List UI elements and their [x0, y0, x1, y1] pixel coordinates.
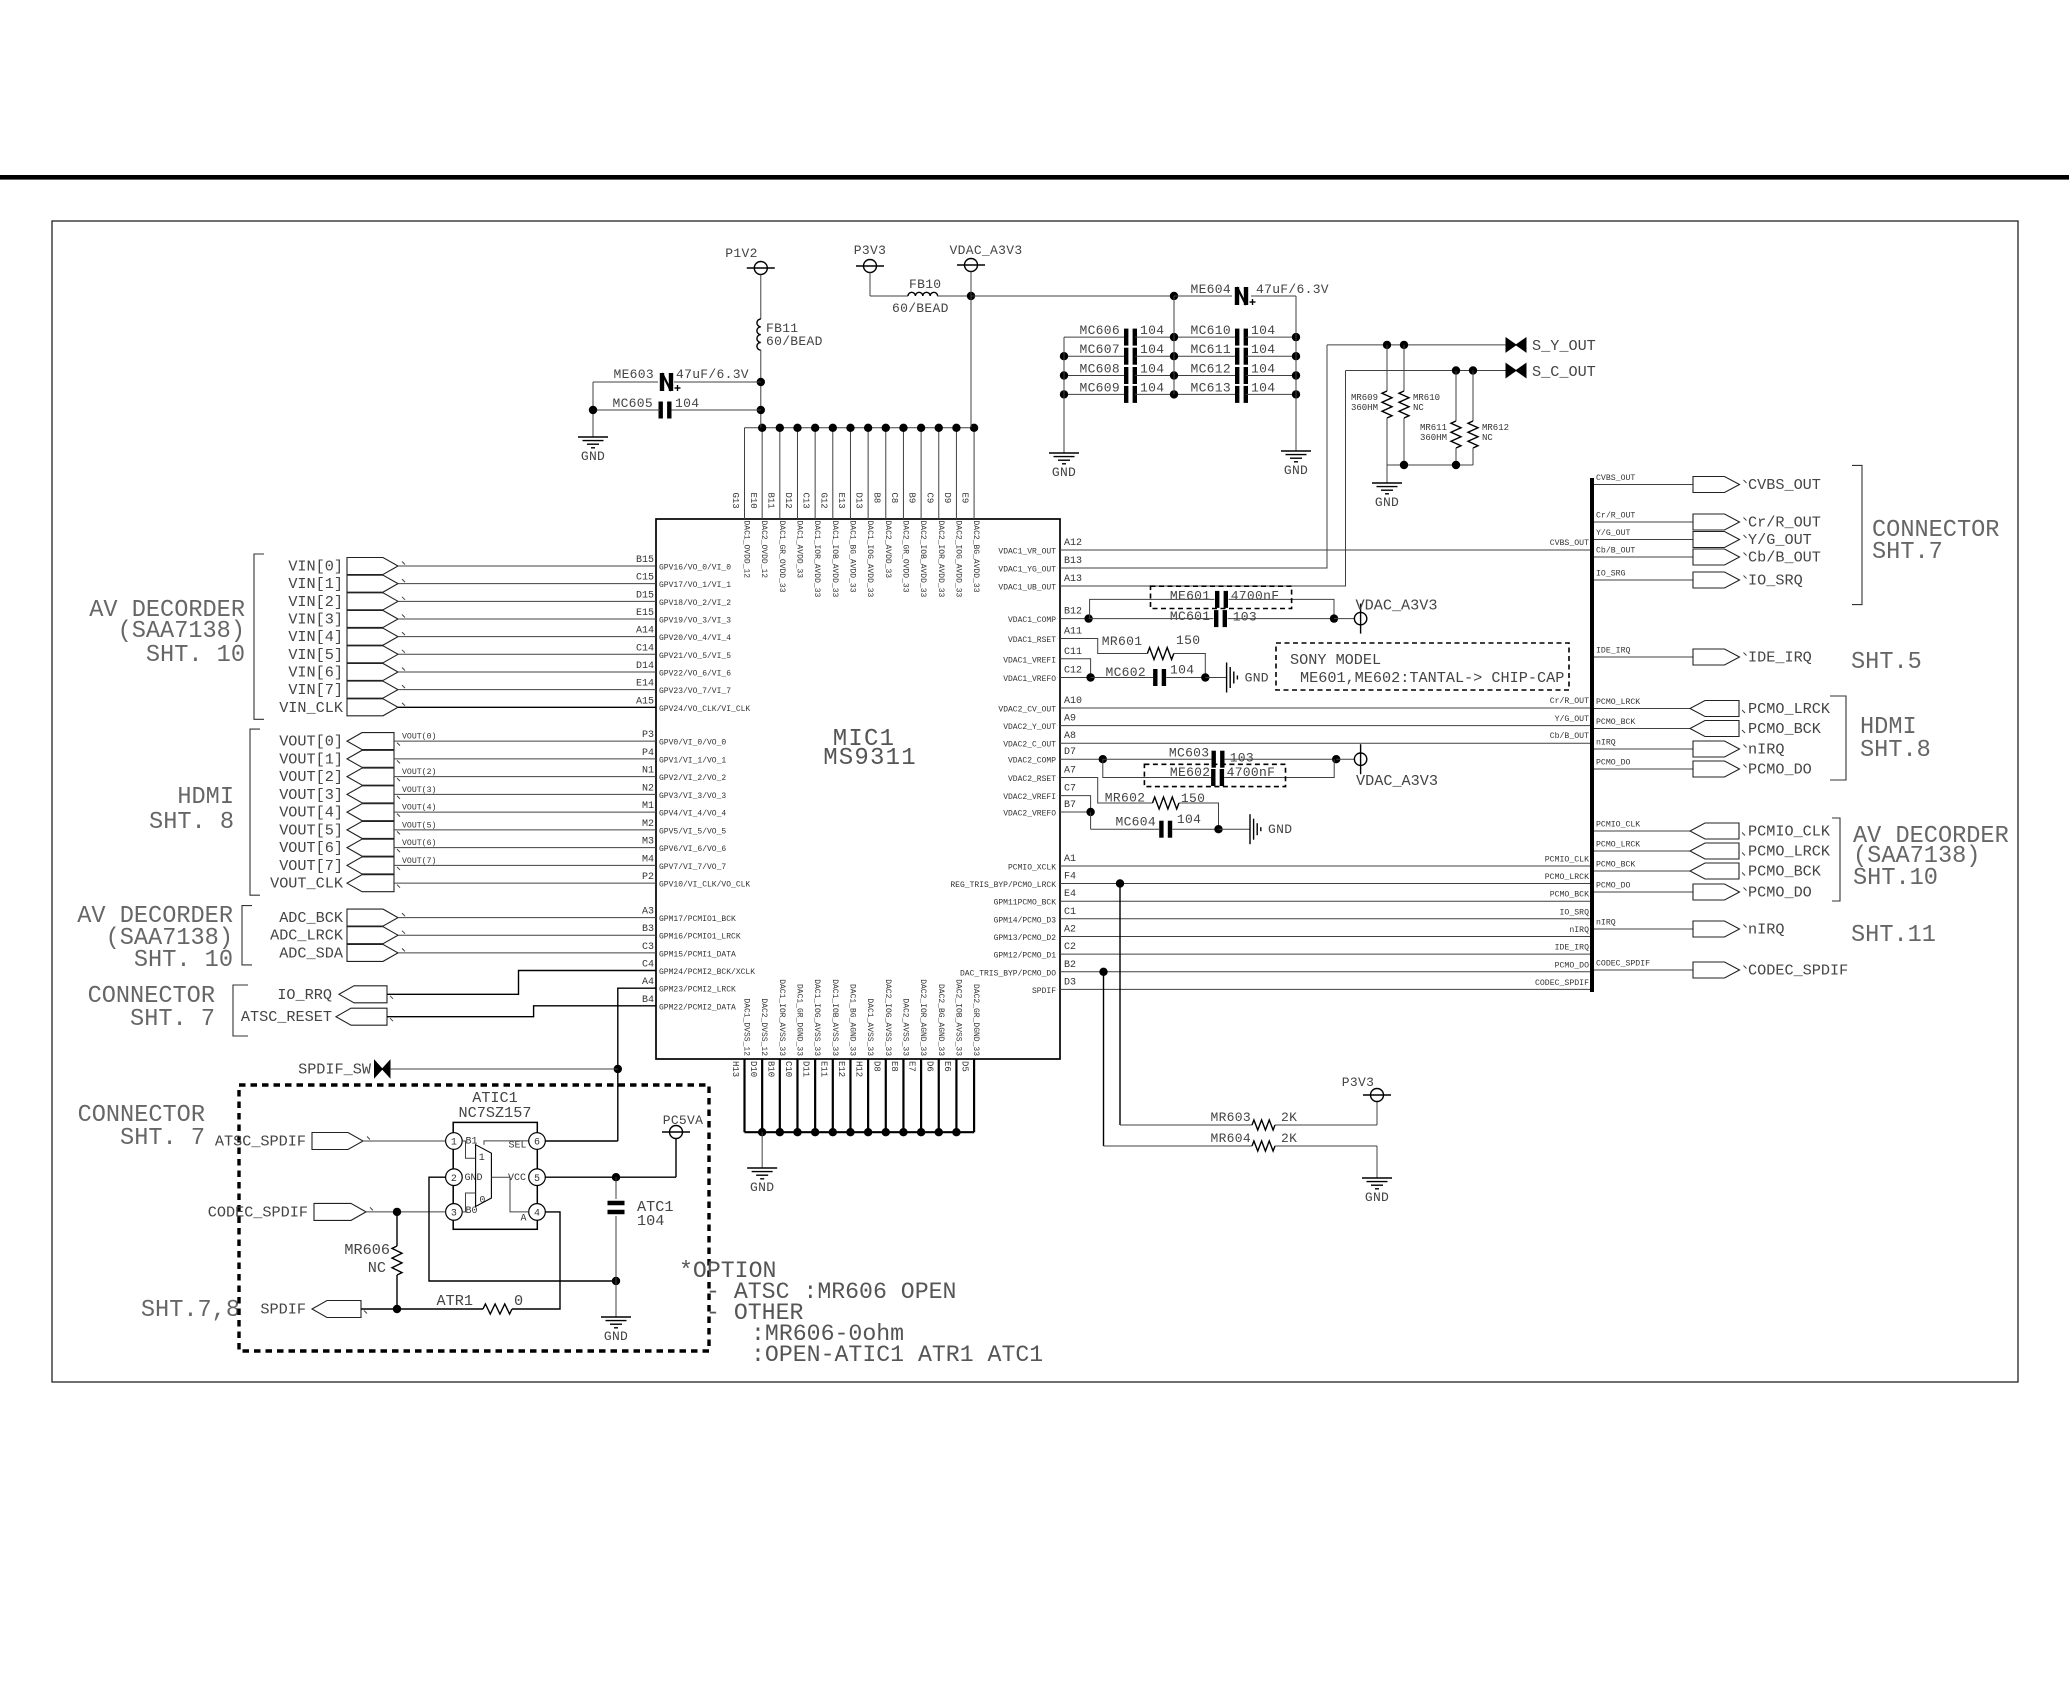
svg-text:GPM22/PCMI2_DATA: GPM22/PCMI2_DATA [659, 1003, 736, 1012]
svg-text:E13: E13 [836, 493, 846, 509]
svg-text:DAC1_IOR_AVSS_33: DAC1_IOR_AVSS_33 [777, 979, 786, 1056]
svg-text:GPM16/PCMIO1_LRCK: GPM16/PCMIO1_LRCK [659, 933, 741, 942]
svg-text:5: 5 [534, 1174, 540, 1185]
svg-text:B12: B12 [1064, 607, 1082, 618]
svg-text:Y/G_OUT: Y/G_OUT [1555, 714, 1589, 724]
svg-text:VIN_CLK: VIN_CLK [279, 699, 344, 717]
svg-text:B2: B2 [1064, 960, 1076, 971]
svg-text:VOUT_CLK: VOUT_CLK [270, 875, 344, 893]
svg-text:C14: C14 [636, 643, 654, 654]
svg-text:DAC1_GR_DGND_33: DAC1_GR_DGND_33 [794, 984, 803, 1056]
svg-text:MC613: MC613 [1190, 380, 1231, 395]
svg-text:D15: D15 [636, 590, 654, 601]
svg-text:E11: E11 [818, 1061, 828, 1077]
svg-text:SHT. 10: SHT. 10 [146, 642, 245, 669]
svg-text:DAC1_IOR_AVDD_33: DAC1_IOR_AVDD_33 [812, 521, 821, 598]
svg-text:E9: E9 [960, 493, 970, 504]
svg-text:VDAC1_VREFO: VDAC1_VREFO [1003, 675, 1056, 684]
svg-text:GPM11PCMO_BCK: GPM11PCMO_BCK [994, 899, 1057, 908]
svg-text:ATSC_RESET: ATSC_RESET [241, 1008, 332, 1026]
svg-text:E15: E15 [636, 608, 654, 619]
svg-text:D14: D14 [636, 661, 654, 672]
svg-text:SPDIF_SW: SPDIF_SW [298, 1061, 372, 1079]
svg-text:A11: A11 [1064, 627, 1082, 638]
svg-text:D13: D13 [854, 493, 864, 509]
svg-text:A3: A3 [642, 907, 654, 918]
svg-text:GPV0/VI_0/VO_0: GPV0/VI_0/VO_0 [659, 739, 726, 748]
svg-text:Cr/R_OUT: Cr/R_OUT [1596, 511, 1635, 521]
svg-text:S_Y_OUT: S_Y_OUT [1532, 337, 1596, 355]
svg-text:GPV20/VO_4/VI_4: GPV20/VO_4/VI_4 [659, 634, 731, 643]
svg-text:VOUT[4]: VOUT[4] [279, 804, 343, 822]
svg-text:SHT.7,8: SHT.7,8 [141, 1297, 240, 1324]
svg-text:A4: A4 [642, 977, 654, 988]
svg-text:PCMIO_CLK: PCMIO_CLK [1748, 823, 1831, 841]
svg-text:B0: B0 [466, 1206, 478, 1217]
svg-text:B11: B11 [765, 493, 775, 509]
svg-text:D9: D9 [942, 493, 952, 504]
svg-text:VDAC2_RSET: VDAC2_RSET [1008, 775, 1056, 784]
svg-text:DAC1_BG_AGND_33: DAC1_BG_AGND_33 [847, 984, 856, 1056]
svg-text:VDAC_A3V3: VDAC_A3V3 [1355, 597, 1437, 615]
svg-text:SHT. 7: SHT. 7 [120, 1125, 205, 1152]
svg-text:2: 2 [451, 1174, 457, 1185]
svg-text:SHT. 7: SHT. 7 [130, 1006, 215, 1033]
svg-text:VDAC1_VR_OUT: VDAC1_VR_OUT [998, 548, 1056, 557]
svg-text:VOUT[3]: VOUT[3] [279, 786, 343, 804]
svg-text:M1: M1 [642, 801, 654, 812]
svg-text:PC5VA: PC5VA [663, 1113, 704, 1128]
svg-text:IDE_IRQ: IDE_IRQ [1555, 944, 1589, 953]
svg-text:VDAC2_VREFO: VDAC2_VREFO [1003, 810, 1056, 819]
svg-text:47uF/6.3V: 47uF/6.3V [676, 367, 749, 382]
svg-text:VDAC_A3V3: VDAC_A3V3 [1356, 772, 1438, 790]
svg-text:SPDIF: SPDIF [1032, 987, 1056, 996]
svg-text:DAC1_IOB_AVDD_33: DAC1_IOB_AVDD_33 [830, 521, 839, 598]
svg-text:nIRQ: nIRQ [1596, 739, 1616, 748]
svg-text:104: 104 [1251, 362, 1275, 377]
svg-text:nIRQ: nIRQ [1596, 919, 1616, 928]
svg-text:MR610: MR610 [1413, 393, 1440, 403]
svg-text:B4: B4 [642, 995, 654, 1006]
svg-text:C13: C13 [801, 493, 811, 509]
svg-text:MC610: MC610 [1190, 323, 1231, 338]
svg-text:GPV5/VI_5/VO_5: GPV5/VI_5/VO_5 [659, 827, 726, 836]
svg-text:D12: D12 [783, 493, 793, 509]
svg-text:M4: M4 [642, 854, 654, 865]
svg-text:nIRQ: nIRQ [1569, 926, 1589, 935]
svg-text:M2: M2 [642, 819, 654, 830]
svg-text:104: 104 [1251, 342, 1275, 357]
svg-text:SHT.11: SHT.11 [1851, 922, 1936, 949]
svg-text:VOUT(7): VOUT(7) [402, 856, 436, 866]
svg-text:360HM: 360HM [1420, 433, 1447, 443]
svg-text:Y/G_OUT: Y/G_OUT [1596, 528, 1630, 538]
svg-text:SHT.10: SHT.10 [1853, 865, 1938, 892]
svg-text::OPEN-ATIC1 ATR1 ATC1: :OPEN-ATIC1 ATR1 ATC1 [751, 1342, 1043, 1368]
svg-text:Cb/B_OUT: Cb/B_OUT [1550, 731, 1589, 741]
svg-text:VDAC1_UB_OUT: VDAC1_UB_OUT [998, 584, 1056, 593]
svg-text:PCMO_LRCK: PCMO_LRCK [1596, 841, 1640, 850]
svg-text:S_C_OUT: S_C_OUT [1532, 363, 1596, 381]
svg-text:ADC_SDA: ADC_SDA [279, 944, 344, 962]
svg-text:ME601,ME602:TANTAL-> CHIP-CAP: ME601,ME602:TANTAL-> CHIP-CAP [1300, 669, 1564, 687]
svg-text:1: 1 [451, 1138, 457, 1149]
svg-text:DAC1_BG_AVDD_33: DAC1_BG_AVDD_33 [847, 521, 856, 593]
svg-text:MC605: MC605 [612, 396, 653, 411]
svg-text:MS9311: MS9311 [823, 745, 917, 772]
svg-text:A9: A9 [1064, 714, 1076, 725]
svg-text:NC7SZ157: NC7SZ157 [459, 1104, 532, 1122]
svg-text:MC604: MC604 [1115, 815, 1156, 830]
svg-text:E10: E10 [748, 493, 758, 509]
svg-text:GPM13/PCMO_D2: GPM13/PCMO_D2 [994, 934, 1057, 943]
svg-text:Cb/B_OUT: Cb/B_OUT [1596, 546, 1635, 556]
svg-text:VOUT[0]: VOUT[0] [279, 733, 343, 751]
svg-text:GND: GND [1268, 822, 1292, 837]
svg-text:IO_SRQ: IO_SRQ [1748, 572, 1803, 590]
svg-text:47uF/6.3V: 47uF/6.3V [1256, 282, 1329, 297]
svg-text:E14: E14 [636, 679, 654, 690]
svg-text:4700nF: 4700nF [1227, 765, 1276, 780]
svg-text:VDAC2_VREFI: VDAC2_VREFI [1003, 793, 1056, 802]
svg-text:CVBS_OUT: CVBS_OUT [1748, 476, 1821, 494]
svg-text:B15: B15 [636, 555, 654, 566]
svg-text:P1V2: P1V2 [725, 246, 757, 261]
svg-text:MR609: MR609 [1351, 393, 1378, 403]
svg-text:IDE_IRQ: IDE_IRQ [1596, 647, 1630, 656]
svg-text:GND: GND [581, 449, 605, 464]
svg-text:G12: G12 [818, 493, 828, 509]
svg-text:B8: B8 [871, 493, 881, 504]
svg-text:VIN[4]: VIN[4] [288, 628, 343, 646]
svg-text:MC607: MC607 [1079, 342, 1120, 357]
svg-text:GPM12/PCMO_D1: GPM12/PCMO_D1 [994, 952, 1057, 961]
svg-text:VOUT[1]: VOUT[1] [279, 750, 343, 768]
svg-text:C11: C11 [1064, 647, 1082, 658]
svg-text:C7: C7 [1064, 784, 1076, 795]
svg-text:MR604: MR604 [1210, 1131, 1251, 1146]
svg-text:C1: C1 [1064, 907, 1076, 918]
svg-text:NC: NC [1413, 403, 1424, 413]
svg-text:104: 104 [1251, 323, 1275, 338]
svg-text:DAC1_OVDD_12: DAC1_OVDD_12 [742, 521, 751, 579]
svg-text:CVBS_OUT: CVBS_OUT [1550, 539, 1589, 548]
svg-text:104: 104 [1140, 342, 1164, 357]
svg-text:N1: N1 [642, 766, 654, 777]
svg-text:0: 0 [514, 1292, 523, 1310]
svg-text:VOUT[7]: VOUT[7] [279, 857, 343, 875]
svg-text:103: 103 [1230, 751, 1254, 766]
svg-text:VOUT[2]: VOUT[2] [279, 768, 343, 786]
svg-text:DAC2_DVSS_12: DAC2_DVSS_12 [759, 998, 768, 1056]
svg-text:2K: 2K [1281, 1110, 1297, 1125]
svg-text:Y/G_OUT: Y/G_OUT [1748, 531, 1812, 549]
svg-text:DAC2_OVDD_12: DAC2_OVDD_12 [759, 521, 768, 579]
svg-text:A: A [520, 1214, 526, 1225]
svg-text:150: 150 [1176, 633, 1200, 648]
svg-text:PCMIO_CLK: PCMIO_CLK [1596, 821, 1640, 830]
svg-text:A8: A8 [1064, 731, 1076, 742]
svg-text:VIN[5]: VIN[5] [288, 646, 343, 664]
svg-text:VIN[7]: VIN[7] [288, 681, 343, 699]
svg-text:MR606: MR606 [344, 1241, 390, 1259]
svg-text:DAC2_AVSS_33: DAC2_AVSS_33 [900, 998, 909, 1056]
svg-text:C12: C12 [1064, 666, 1082, 677]
svg-text:GPV23/VO_7/VI_7: GPV23/VO_7/VI_7 [659, 687, 731, 696]
svg-text:GND: GND [1245, 671, 1269, 686]
svg-text:SEL: SEL [508, 1141, 526, 1152]
svg-text:MC608: MC608 [1079, 362, 1120, 377]
svg-text:104: 104 [1140, 323, 1164, 338]
svg-text:A1: A1 [1064, 854, 1076, 865]
svg-text:VIN[0]: VIN[0] [288, 558, 343, 576]
svg-text:ADC_LRCK: ADC_LRCK [270, 927, 344, 945]
svg-text:D6: D6 [924, 1061, 934, 1072]
svg-text:VDAC2_Y_OUT: VDAC2_Y_OUT [1003, 723, 1056, 732]
svg-text:GPV1/VI_1/VO_1: GPV1/VI_1/VO_1 [659, 756, 726, 765]
svg-text:GPV3/VI_3/VO_3: GPV3/VI_3/VO_3 [659, 792, 726, 801]
svg-text:D5: D5 [960, 1061, 970, 1072]
svg-text:4700nF: 4700nF [1231, 589, 1280, 604]
svg-text:PCMO_DO: PCMO_DO [1596, 882, 1630, 891]
svg-text:VDAC1_VREFI: VDAC1_VREFI [1003, 656, 1056, 665]
svg-text:104: 104 [1170, 663, 1194, 678]
svg-text:PCMO_BCK: PCMO_BCK [1596, 718, 1635, 727]
svg-text:ADC_BCK: ADC_BCK [279, 909, 344, 927]
svg-text:P3: P3 [642, 730, 654, 741]
svg-text:DAC2_IOR_AGND_33: DAC2_IOR_AGND_33 [918, 979, 927, 1056]
svg-text:VDAC2_C_OUT: VDAC2_C_OUT [1003, 741, 1056, 750]
svg-text:DAC2_IOG_AVSS_33: DAC2_IOG_AVSS_33 [883, 979, 892, 1056]
svg-text:VOUT(0): VOUT(0) [402, 732, 436, 742]
svg-text:IO_RRQ: IO_RRQ [277, 986, 332, 1004]
svg-text:PCMO_BCK: PCMO_BCK [1748, 863, 1822, 881]
svg-text:DAC2_IOG_AVDD_33: DAC2_IOG_AVDD_33 [953, 521, 962, 598]
svg-text:VDAC2_COMP: VDAC2_COMP [1008, 757, 1056, 766]
svg-text:GPM24/PCMI2_BCK/XCLK: GPM24/PCMI2_BCK/XCLK [659, 968, 755, 977]
svg-text:360HM: 360HM [1351, 403, 1378, 413]
svg-text:F4: F4 [1064, 872, 1076, 883]
svg-text:1: 1 [479, 1153, 485, 1164]
svg-text:VIN[2]: VIN[2] [288, 593, 343, 611]
svg-text:GPV24/VO_CLK/VI_CLK: GPV24/VO_CLK/VI_CLK [659, 705, 750, 714]
svg-text:GPV21/VO_5/VI_5: GPV21/VO_5/VI_5 [659, 652, 731, 661]
svg-text:GPV22/VO_6/VI_6: GPV22/VO_6/VI_6 [659, 669, 731, 678]
svg-text:C4: C4 [642, 960, 654, 971]
svg-text:VOUT(4): VOUT(4) [402, 803, 436, 813]
svg-text:PCMO_LRCK: PCMO_LRCK [1748, 700, 1831, 718]
svg-text:A13: A13 [1064, 574, 1082, 585]
svg-text:SHT. 10: SHT. 10 [134, 947, 233, 974]
svg-text:GND: GND [465, 1173, 483, 1184]
svg-text:GPM17/PCMIO1_BCK: GPM17/PCMIO1_BCK [659, 915, 736, 924]
svg-text:PCMO_DO: PCMO_DO [1748, 761, 1812, 779]
svg-text:ME601: ME601 [1170, 589, 1211, 604]
svg-text:GPV6/VI_6/VO_6: GPV6/VI_6/VO_6 [659, 845, 726, 854]
svg-text:C8: C8 [889, 493, 899, 504]
svg-text:SHT.7: SHT.7 [1872, 539, 1943, 566]
svg-text:IDE_IRQ: IDE_IRQ [1748, 649, 1812, 667]
svg-text:MR611: MR611 [1420, 423, 1447, 433]
svg-text:GPV18/VO_2/VI_2: GPV18/VO_2/VI_2 [659, 599, 731, 608]
svg-text:REG_TRIS_BYP/PCMO_LRCK: REG_TRIS_BYP/PCMO_LRCK [950, 881, 1056, 890]
svg-text:CODEC_SPDIF: CODEC_SPDIF [1535, 979, 1589, 988]
svg-text:GND: GND [1365, 1190, 1389, 1205]
svg-text:A7: A7 [1064, 766, 1076, 777]
svg-text:GND: GND [750, 1180, 774, 1195]
svg-text:104: 104 [675, 396, 699, 411]
svg-text:VOUT(3): VOUT(3) [402, 785, 436, 795]
svg-text:B10: B10 [765, 1061, 775, 1077]
svg-text:GPM15/PCMI1_DATA: GPM15/PCMI1_DATA [659, 950, 736, 959]
svg-text:VDAC1_YG_OUT: VDAC1_YG_OUT [998, 566, 1056, 575]
svg-text:DAC2_GR_OVDD_33: DAC2_GR_OVDD_33 [900, 521, 909, 593]
svg-text:PCMO_LRCK: PCMO_LRCK [1596, 698, 1640, 707]
svg-text:MC611: MC611 [1190, 342, 1231, 357]
svg-text:60/BEAD: 60/BEAD [892, 301, 949, 316]
svg-text:103: 103 [1233, 610, 1257, 625]
svg-text:D8: D8 [871, 1061, 881, 1072]
svg-text:MC602: MC602 [1105, 665, 1146, 680]
svg-text:GPV2/VI_2/VO_2: GPV2/VI_2/VO_2 [659, 774, 726, 783]
svg-text:B13: B13 [1064, 556, 1082, 567]
svg-text:DAC1_GR_OVDD_33: DAC1_GR_OVDD_33 [777, 521, 786, 593]
svg-text:P2: P2 [642, 872, 654, 883]
svg-text:DAC1_IOG_AVSS_33: DAC1_IOG_AVSS_33 [812, 979, 821, 1056]
svg-text:E7: E7 [907, 1061, 917, 1072]
svg-text:NC: NC [368, 1259, 386, 1277]
svg-text:4: 4 [534, 1209, 540, 1220]
svg-text:PCMO_BCK: PCMO_BCK [1748, 720, 1822, 738]
svg-text:DAC_TRIS_BYP/PCMO_DO: DAC_TRIS_BYP/PCMO_DO [960, 969, 1056, 978]
svg-text:E6: E6 [942, 1061, 952, 1072]
svg-text:GPV7/VI_7/VO_7: GPV7/VI_7/VO_7 [659, 863, 726, 872]
svg-text:CODEC_SPDIF: CODEC_SPDIF [208, 1203, 308, 1221]
svg-text:MR603: MR603 [1210, 1110, 1251, 1125]
svg-text:MR602: MR602 [1105, 791, 1146, 806]
svg-text:D7: D7 [1064, 747, 1076, 758]
svg-text:N2: N2 [642, 783, 654, 794]
svg-text:ME604: ME604 [1190, 282, 1231, 297]
svg-text:B7: B7 [1064, 800, 1076, 811]
svg-text:GND: GND [1375, 495, 1399, 510]
svg-text:C3: C3 [642, 942, 654, 953]
svg-text:PCMIO_CLK: PCMIO_CLK [1545, 856, 1589, 865]
svg-text:MC609: MC609 [1079, 380, 1120, 395]
svg-text:MC601: MC601 [1170, 609, 1211, 624]
svg-text:104: 104 [1251, 380, 1275, 395]
svg-text:GND: GND [1284, 463, 1308, 478]
svg-text:DAC2_IOB_AVDD_33: DAC2_IOB_AVDD_33 [918, 521, 927, 598]
svg-text:(SAA7138): (SAA7138) [118, 618, 245, 645]
svg-text:DAC2_IOR_AVDD_33: DAC2_IOR_AVDD_33 [936, 521, 945, 598]
svg-text:MC606: MC606 [1079, 323, 1120, 338]
svg-text:GND: GND [604, 1329, 628, 1344]
svg-text:IO_SRQ: IO_SRQ [1560, 908, 1590, 917]
svg-text:DAC1_IOB_AVSS_33: DAC1_IOB_AVSS_33 [830, 979, 839, 1056]
svg-text:PCMIO_XCLK: PCMIO_XCLK [1008, 864, 1056, 873]
svg-text:A14: A14 [636, 626, 654, 637]
svg-text:CVBS_OUT: CVBS_OUT [1596, 474, 1635, 483]
svg-text:P4: P4 [642, 748, 654, 759]
svg-text:nIRQ: nIRQ [1748, 741, 1784, 759]
svg-text:SPDIF: SPDIF [260, 1301, 306, 1319]
svg-text:GPV10/VI_CLK/VO_CLK: GPV10/VI_CLK/VO_CLK [659, 881, 750, 890]
svg-text:G13: G13 [730, 493, 740, 509]
svg-text:150: 150 [1181, 791, 1205, 806]
svg-text:A10: A10 [1064, 696, 1082, 707]
svg-text:DAC1_AVSS_33: DAC1_AVSS_33 [865, 998, 874, 1056]
svg-text:M3: M3 [642, 837, 654, 848]
svg-text:DAC1_DVSS_12: DAC1_DVSS_12 [742, 998, 751, 1056]
svg-text:VOUT(5): VOUT(5) [402, 820, 436, 830]
svg-text:DAC2_IOB_AVSS_33: DAC2_IOB_AVSS_33 [953, 979, 962, 1056]
svg-text:C2: C2 [1064, 942, 1076, 953]
svg-text:GPM23/PCMI2_LRCK: GPM23/PCMI2_LRCK [659, 986, 736, 995]
svg-text:VCC: VCC [508, 1173, 526, 1184]
svg-text:D11: D11 [801, 1061, 811, 1077]
svg-text:VIN[6]: VIN[6] [288, 663, 343, 681]
svg-text:DAC2_AVDD_33: DAC2_AVDD_33 [883, 521, 892, 579]
svg-text:VOUT[5]: VOUT[5] [279, 821, 343, 839]
svg-text:VOUT(6): VOUT(6) [402, 838, 436, 848]
svg-text:GPV17/VO_1/VI_1: GPV17/VO_1/VI_1 [659, 581, 731, 590]
svg-text:DAC2_GR_DGND_33: DAC2_GR_DGND_33 [971, 984, 980, 1056]
svg-text:B3: B3 [642, 924, 654, 935]
svg-text:PCMO_DO: PCMO_DO [1596, 759, 1630, 768]
svg-text:P3V3: P3V3 [854, 243, 886, 258]
svg-text:SHT.5: SHT.5 [1851, 649, 1922, 676]
svg-text:60/BEAD: 60/BEAD [766, 334, 823, 349]
svg-text:ME602: ME602 [1170, 765, 1211, 780]
svg-text:MR612: MR612 [1482, 423, 1509, 433]
svg-text:VIN[1]: VIN[1] [288, 575, 343, 593]
svg-text:NC: NC [1482, 433, 1493, 443]
svg-text:VDAC2_CV_OUT: VDAC2_CV_OUT [998, 706, 1056, 715]
svg-text:P3V3: P3V3 [1342, 1075, 1374, 1090]
svg-text:ATR1: ATR1 [437, 1292, 473, 1310]
svg-text:CODEC_SPDIF: CODEC_SPDIF [1748, 962, 1848, 980]
svg-text:A2: A2 [1064, 925, 1076, 936]
svg-text:ME603: ME603 [613, 367, 654, 382]
svg-text:GND: GND [1052, 465, 1076, 480]
svg-text:6: 6 [534, 1138, 540, 1149]
svg-text:VOUT(2): VOUT(2) [402, 767, 436, 777]
svg-text:DAC1_IOG_AVDD_33: DAC1_IOG_AVDD_33 [865, 521, 874, 598]
svg-text:nIRQ: nIRQ [1748, 921, 1784, 939]
svg-text:SHT.8: SHT.8 [1860, 737, 1931, 764]
svg-text:Cb/B_OUT: Cb/B_OUT [1748, 549, 1821, 567]
svg-text:104: 104 [637, 1212, 664, 1230]
svg-text:SHT. 8: SHT. 8 [149, 809, 234, 836]
svg-text:C9: C9 [924, 493, 934, 504]
svg-text:GPV4/VI_4/VO_4: GPV4/VI_4/VO_4 [659, 810, 726, 819]
svg-text:C10: C10 [783, 1061, 793, 1077]
svg-text:A15: A15 [636, 696, 654, 707]
svg-text:VOUT[6]: VOUT[6] [279, 839, 343, 857]
svg-text:ATSC_SPDIF: ATSC_SPDIF [215, 1133, 306, 1151]
svg-text:D3: D3 [1064, 977, 1076, 988]
svg-text:PCMO_LRCK: PCMO_LRCK [1545, 873, 1589, 882]
svg-text:104: 104 [1140, 380, 1164, 395]
svg-text:H12: H12 [854, 1061, 864, 1077]
svg-text:VDAC_A3V3: VDAC_A3V3 [950, 243, 1023, 258]
svg-text:DAC2_BG_AVDD_33: DAC2_BG_AVDD_33 [971, 521, 980, 593]
svg-text:IO_SRG: IO_SRG [1596, 570, 1626, 579]
svg-text:Cr/R_OUT: Cr/R_OUT [1748, 514, 1821, 532]
svg-text:PCMO_BCK: PCMO_BCK [1550, 891, 1589, 900]
